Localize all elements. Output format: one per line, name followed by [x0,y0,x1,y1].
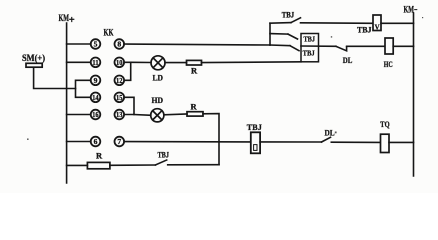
svg-text:12: 12 [116,76,123,85]
svg-text:11: 11 [92,58,99,67]
svg-text:LD: LD [153,73,164,83]
svg-text:HC: HC [384,59,393,69]
wire top row to V box [301,22,374,25]
wire HC to right bus [393,45,413,47]
svg-text:SM(+): SM(+) [22,53,45,63]
svg-text:TBJ: TBJ [357,25,372,35]
coil TQ [381,134,390,152]
svg-text:9: 9 [94,76,98,85]
svg-text:TBJ: TBJ [247,122,263,132]
wire top row left [270,22,291,25]
contact KK 8 [115,39,125,49]
contact KK 5 [91,39,101,49]
resistor R (bottom) [87,162,110,168]
contact KK 15 [115,93,125,103]
meter V box [373,15,381,31]
wire HD to R [164,113,187,116]
svg-text:16: 16 [92,110,99,119]
wire left bus [66,23,68,183]
svg-text:15: 15 [116,93,123,102]
breaker DL blade (top) [336,46,347,51]
svg-text:8: 8 [117,40,121,49]
svg-text:DL: DL [325,127,335,137]
lamp HD [151,109,164,122]
switch TBJ blade (main row) [290,46,299,51]
svg-text:7: 7 [117,137,121,146]
svg-text:10: 10 [116,58,123,67]
wire DL to HC [347,45,385,47]
wire main row through box [301,45,336,47]
wire LD to R [165,62,187,64]
resistor R (HD row) [187,112,203,116]
wire speck artifacts [27,17,423,140]
wire contact 8 to TBJ network [124,44,270,45]
svg-text:KM−: KM− [404,5,418,15]
svg-text:13: 13 [116,110,123,119]
node junction vertical [269,23,271,45]
svg-text:R: R [191,102,198,112]
svg-text:TBJ: TBJ [158,149,170,159]
svg-text:DL: DL [343,55,353,65]
wire 15/13 bracket [124,97,134,114]
svg-text:R: R [96,151,103,161]
svg-text:KK: KK [104,28,114,38]
switch TBJ blade (top row) [291,18,301,23]
lamp LD [151,56,165,70]
wire V box to right bus [381,22,414,24]
wire right bus [413,13,415,176]
wire 13 to HD lamp [134,114,151,117]
wire bus to contact 5 [67,43,91,45]
svg-text:TQ: TQ [380,119,390,129]
wire bus to contact 11 [67,61,91,63]
contact KK 7 [115,137,125,147]
frame TBJ contacts box [301,34,319,62]
svg-text:V: V [375,23,380,32]
wire TQ to right bus [389,141,414,143]
battery SM symbol [26,63,42,67]
wire TBJ strip to DL [260,141,321,143]
contact KK 6 [91,137,101,147]
wire R to TBJ box corner [202,61,302,64]
wire SM to 9/14 bracket [34,67,76,88]
contact KK 12 [115,76,125,86]
breaker DL blade (row 6) [322,137,331,142]
svg-text:6: 6 [94,137,98,146]
svg-text:TBJ: TBJ [303,48,315,57]
wire 10/12 bracket [124,62,131,80]
wire R to TBJ switch [110,164,155,166]
wire R to corner, down to bottom row [203,114,219,165]
svg-text:+: + [69,15,75,26]
strip TBJ box (row 6) [251,132,260,153]
switch TBJ blade (branch A) [288,34,298,39]
contact KK 11 [91,58,101,68]
resistor R (LD row) [187,60,202,65]
wire DL to TQ [331,141,380,143]
wire to LD lamp [131,61,151,63]
switch TBJ blade (bottom) [155,160,166,165]
wire bottom row from bus [67,164,88,166]
svg-text:14: 14 [92,93,99,102]
svg-text:5: 5 [94,40,98,49]
contact KK 16 [91,110,101,120]
contact KK 9 [91,76,101,86]
svg-text:TBJ: TBJ [304,34,316,43]
contact KK 14 [91,93,101,103]
wire 9/14 bracket [76,80,91,97]
wire contact 7 to TBJ strip [124,141,250,143]
svg-text:R: R [191,66,198,76]
strip TBJ inner mark [254,145,257,151]
wire bus to contact 16 [67,114,91,116]
wire TBJ to corner up [168,164,219,166]
contact KK 13 [115,110,125,120]
wire branch A from junction [270,33,288,36]
wire bus to contact 6 [67,141,91,143]
contact KK 10 [115,58,125,68]
coil HC [385,38,393,54]
svg-text:HD: HD [152,95,164,105]
svg-text:TBJ: TBJ [282,11,295,20]
